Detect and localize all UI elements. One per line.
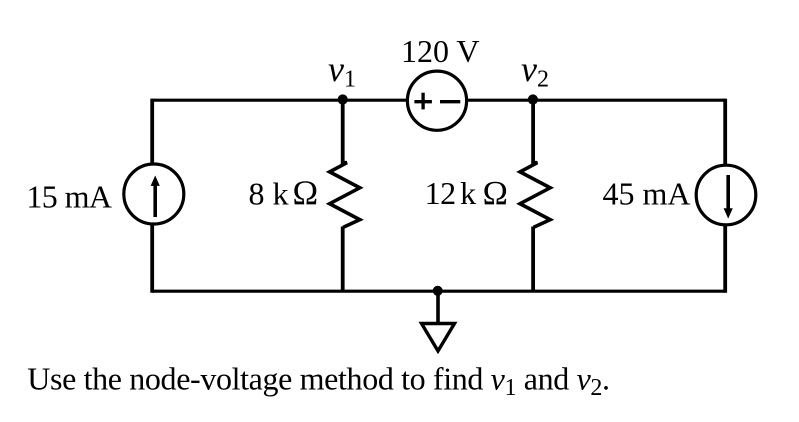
node v1 dot	[338, 94, 348, 104]
voltage source minus sign	[440, 100, 460, 103]
wire branch v1	[341, 100, 345, 292]
current source 45 mA circle	[696, 165, 756, 225]
svg-text:8 kΩ: 8 kΩ	[249, 174, 319, 212]
label 8 kOhm	[249, 174, 319, 212]
svg-text:45 mA: 45 mA	[603, 176, 691, 212]
voltage source plus sign	[414, 93, 432, 110]
svg-text:v1: v1	[328, 49, 356, 93]
label 120 V	[401, 33, 480, 69]
node ground dot	[433, 286, 443, 296]
node v1 label	[328, 49, 356, 93]
resistor 8 kOhm zigzag	[330, 163, 360, 228]
label 15 mA	[26, 178, 111, 214]
voltage source 120 V circle	[407, 71, 466, 130]
node v2 dot	[528, 94, 538, 104]
svg-text:120 V: 120 V	[401, 33, 480, 69]
svg-text:Use the node-voltage method to: Use the node-voltage method to find v1 a…	[27, 361, 609, 402]
wire left	[150, 99, 154, 293]
caption	[27, 361, 609, 402]
svg-text:v2: v2	[521, 49, 549, 93]
ground	[422, 291, 455, 351]
label 12 kOhm	[425, 175, 508, 212]
current source 45 mA arrow down	[724, 175, 733, 219]
wire bottom	[152, 290, 725, 293]
svg-text:15 mA: 15 mA	[26, 178, 111, 214]
wire right	[723, 99, 727, 293]
resistor 12 kOhm zigzag	[520, 163, 550, 228]
current source 15 mA arrow up	[151, 176, 160, 218]
current source 15 mA circle	[124, 164, 184, 224]
label 45 mA	[603, 176, 691, 212]
svg-text:12 kΩ: 12 kΩ	[425, 175, 508, 212]
wire top	[152, 99, 725, 102]
wire branch v2	[531, 100, 535, 292]
node v2 label	[521, 49, 549, 93]
